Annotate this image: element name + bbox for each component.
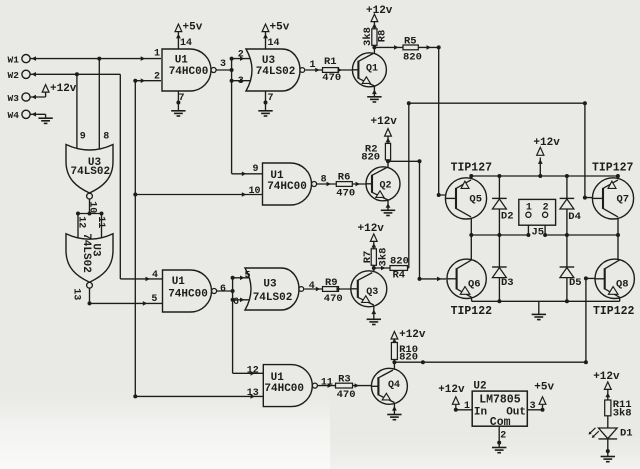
svg-text:7: 7 bbox=[179, 93, 185, 104]
svg-text:4: 4 bbox=[152, 270, 158, 281]
svg-text:+12v: +12v bbox=[50, 83, 77, 95]
svg-text:13: 13 bbox=[71, 288, 82, 300]
svg-text:+12v: +12v bbox=[366, 5, 393, 17]
svg-text:3: 3 bbox=[238, 76, 244, 87]
svg-text:7: 7 bbox=[268, 93, 274, 104]
svg-text:3: 3 bbox=[220, 59, 226, 70]
svg-text:10: 10 bbox=[87, 201, 98, 213]
svg-text:U1: U1 bbox=[270, 170, 284, 182]
svg-text:TIP122: TIP122 bbox=[593, 305, 635, 318]
svg-text:2: 2 bbox=[543, 203, 549, 214]
svg-text:R9: R9 bbox=[325, 277, 338, 289]
svg-text:+12v: +12v bbox=[438, 384, 465, 396]
svg-text:3: 3 bbox=[530, 401, 536, 412]
svg-text:Q7: Q7 bbox=[617, 193, 630, 205]
svg-text:W4: W4 bbox=[8, 110, 20, 121]
svg-text:D3: D3 bbox=[501, 277, 514, 289]
svg-text:6: 6 bbox=[233, 297, 239, 308]
svg-text:820: 820 bbox=[361, 151, 380, 163]
svg-text:+12v: +12v bbox=[593, 371, 620, 383]
svg-text:12: 12 bbox=[76, 216, 87, 228]
svg-text:U3: U3 bbox=[89, 243, 101, 257]
svg-text:14: 14 bbox=[180, 38, 192, 49]
svg-text:4: 4 bbox=[309, 281, 315, 292]
svg-text:1: 1 bbox=[464, 401, 470, 412]
svg-text:TIP127: TIP127 bbox=[451, 162, 493, 175]
svg-text:R8: R8 bbox=[377, 30, 389, 43]
svg-text:74LS02: 74LS02 bbox=[70, 166, 110, 178]
svg-text:R5: R5 bbox=[404, 35, 417, 47]
svg-text:+5v: +5v bbox=[183, 22, 203, 34]
svg-text:+12v: +12v bbox=[533, 137, 560, 149]
svg-text:W2: W2 bbox=[8, 70, 20, 81]
svg-text:W3: W3 bbox=[8, 93, 20, 104]
svg-text:Q8: Q8 bbox=[616, 278, 629, 290]
svg-text:1: 1 bbox=[154, 49, 160, 60]
svg-text:In: In bbox=[474, 406, 487, 418]
svg-text:74LS02: 74LS02 bbox=[253, 292, 293, 304]
svg-text:J5: J5 bbox=[532, 226, 545, 238]
svg-text:D5: D5 bbox=[569, 277, 582, 289]
svg-text:Q3: Q3 bbox=[366, 287, 378, 298]
svg-text:3k8: 3k8 bbox=[377, 248, 389, 267]
svg-text:Q2: Q2 bbox=[380, 181, 392, 192]
svg-text:6: 6 bbox=[220, 284, 226, 295]
svg-text:14: 14 bbox=[268, 38, 280, 49]
svg-text:U1: U1 bbox=[175, 55, 189, 67]
svg-text:820: 820 bbox=[403, 52, 422, 64]
svg-text:3k8: 3k8 bbox=[613, 408, 632, 420]
svg-text:Q1: Q1 bbox=[366, 64, 378, 75]
svg-text:1: 1 bbox=[310, 60, 316, 71]
svg-text:R1: R1 bbox=[324, 56, 337, 68]
svg-text:470: 470 bbox=[337, 389, 356, 401]
svg-text:74HC00: 74HC00 bbox=[264, 383, 304, 395]
svg-text:+12v: +12v bbox=[371, 116, 398, 128]
svg-text:74HC00: 74HC00 bbox=[169, 66, 209, 78]
svg-text:R7: R7 bbox=[362, 251, 374, 264]
svg-text:TIP122: TIP122 bbox=[451, 305, 493, 318]
svg-text:+12v: +12v bbox=[358, 223, 385, 235]
svg-text:R4: R4 bbox=[393, 269, 406, 281]
svg-text:470: 470 bbox=[336, 188, 355, 200]
svg-text:10: 10 bbox=[249, 186, 261, 197]
svg-text:2: 2 bbox=[238, 49, 244, 60]
svg-text:D2: D2 bbox=[501, 211, 514, 223]
svg-text:2: 2 bbox=[500, 431, 506, 442]
svg-text:D1: D1 bbox=[620, 427, 633, 439]
svg-text:U2: U2 bbox=[473, 381, 486, 393]
svg-text:9: 9 bbox=[80, 132, 86, 143]
svg-text:11: 11 bbox=[95, 216, 106, 228]
svg-text:W1: W1 bbox=[8, 54, 20, 65]
svg-text:5: 5 bbox=[245, 270, 251, 281]
svg-text:+12v: +12v bbox=[399, 329, 426, 341]
svg-text:D4: D4 bbox=[568, 211, 581, 223]
svg-text:R6: R6 bbox=[338, 172, 351, 184]
svg-text:470: 470 bbox=[322, 72, 341, 84]
svg-text:TIP127: TIP127 bbox=[592, 162, 634, 175]
svg-text:2: 2 bbox=[154, 72, 160, 83]
svg-text:Q5: Q5 bbox=[469, 193, 482, 205]
svg-text:12: 12 bbox=[247, 366, 259, 377]
svg-text:+5v: +5v bbox=[270, 22, 290, 34]
svg-text:Q6: Q6 bbox=[468, 278, 481, 290]
svg-text:9: 9 bbox=[253, 164, 259, 175]
svg-text:13: 13 bbox=[247, 388, 259, 399]
svg-text:74LS02: 74LS02 bbox=[256, 66, 296, 78]
svg-text:11: 11 bbox=[321, 378, 333, 389]
svg-text:3k8: 3k8 bbox=[362, 27, 374, 46]
svg-text:74HC00: 74HC00 bbox=[168, 289, 208, 301]
svg-text:Q4: Q4 bbox=[388, 380, 400, 391]
svg-text:U1: U1 bbox=[172, 276, 186, 288]
svg-text:LM7805: LM7805 bbox=[479, 394, 521, 407]
svg-text:820: 820 bbox=[399, 352, 418, 364]
svg-text:74HC00: 74HC00 bbox=[267, 181, 307, 193]
svg-text:R3: R3 bbox=[338, 373, 351, 385]
svg-text:820: 820 bbox=[390, 256, 409, 268]
svg-text:5: 5 bbox=[151, 294, 157, 305]
svg-text:8: 8 bbox=[103, 132, 109, 143]
svg-text:Com: Com bbox=[490, 416, 511, 429]
svg-text:1: 1 bbox=[526, 203, 532, 214]
svg-text:U3: U3 bbox=[263, 279, 277, 291]
svg-text:+5v: +5v bbox=[534, 382, 554, 394]
svg-text:8: 8 bbox=[321, 175, 327, 186]
svg-text:470: 470 bbox=[324, 293, 343, 305]
